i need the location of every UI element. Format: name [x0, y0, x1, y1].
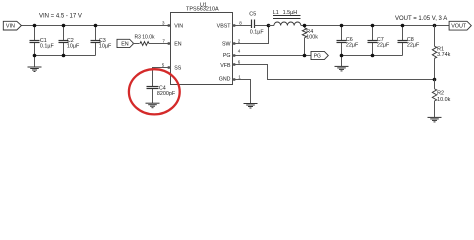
wire C5 to SW node: [255, 25, 269, 27]
capacitor C1: [30, 26, 55, 56]
node R4 top: [303, 24, 307, 28]
node feedback: [433, 78, 437, 82]
svg-text:22µF: 22µF: [407, 43, 420, 49]
wire input cap ground bus: [35, 55, 96, 57]
resistor R4: [302, 26, 318, 56]
svg-text:VBST: VBST: [217, 23, 232, 29]
svg-text:EN: EN: [174, 41, 182, 47]
svg-text:5: 5: [162, 62, 165, 67]
svg-text:PG: PG: [223, 53, 231, 59]
capacitor C6: [337, 26, 360, 56]
svg-text:SS: SS: [174, 65, 182, 71]
resistor R2: [432, 80, 450, 118]
wire VIN rail: [22, 25, 171, 27]
wire VFB feedback: [233, 65, 435, 80]
capacitor C2: [59, 26, 81, 56]
svg-text:VFB: VFB: [220, 63, 231, 69]
svg-text:VIN: VIN: [174, 23, 183, 29]
svg-text:6: 6: [238, 59, 241, 64]
svg-text:VOUT: VOUT: [451, 24, 467, 30]
svg-text:VIN = 4.5 - 17 V: VIN = 4.5 - 17 V: [39, 14, 82, 20]
ground input bus: [28, 56, 42, 72]
svg-text:2: 2: [238, 38, 241, 43]
capacitor C8: [398, 26, 421, 56]
annotation red circle: [129, 69, 180, 114]
resistor R1: [432, 26, 450, 80]
svg-text:0.1µF: 0.1µF: [250, 29, 265, 35]
net flag VOUT: [449, 21, 471, 30]
svg-text:10µF: 10µF: [67, 43, 80, 49]
svg-text:22µF: 22µF: [377, 43, 390, 49]
svg-text:C5: C5: [249, 11, 256, 17]
svg-text:10µF: 10µF: [99, 43, 112, 49]
wire output cap ground bus: [342, 55, 403, 57]
svg-text:PG: PG: [314, 54, 321, 60]
junction dots output rail: [340, 24, 437, 58]
pin connector circles left: [168, 25, 170, 69]
svg-text:GND: GND: [219, 76, 231, 82]
capacitor C7: [368, 26, 391, 56]
svg-text:1: 1: [238, 74, 241, 79]
wire output rail: [301, 25, 449, 27]
svg-text:100k: 100k: [306, 35, 318, 41]
wire SW pin: [233, 26, 269, 44]
node R4/PG: [303, 54, 307, 58]
net flag VIN: [3, 21, 21, 30]
svg-text:L1: L1: [273, 10, 279, 16]
capacitor C4: [147, 85, 176, 97]
svg-text:1.5µH: 1.5µH: [283, 10, 298, 16]
svg-text:SW: SW: [222, 41, 231, 47]
ground C4: [146, 89, 160, 108]
wire VBST pin: [233, 25, 252, 27]
capacitor C5: [249, 11, 264, 35]
svg-text:TPS563210A: TPS563210A: [186, 7, 219, 13]
svg-text:4: 4: [238, 49, 241, 54]
svg-text:8200pF: 8200pF: [157, 91, 176, 97]
svg-text:R2: R2: [437, 90, 444, 96]
ground R2: [428, 117, 442, 122]
svg-text:EN: EN: [121, 42, 129, 48]
net flag PG: [311, 51, 328, 59]
svg-text:8: 8: [239, 20, 242, 25]
ground IC GND: [244, 104, 258, 109]
ground output bus: [335, 56, 349, 71]
pin connector circles right: [233, 25, 235, 81]
svg-text:VIN: VIN: [6, 24, 15, 30]
net flag EN: [117, 39, 134, 47]
wire GND pin: [233, 80, 251, 104]
capacitor C3: [91, 26, 113, 56]
inductor L1: [269, 10, 301, 25]
wire SS pin: [153, 68, 171, 87]
svg-text:3.74k: 3.74k: [437, 52, 450, 58]
svg-text:VOUT = 1.05 V, 3 A: VOUT = 1.05 V, 3 A: [395, 16, 447, 22]
wire PG pin: [233, 55, 312, 57]
svg-text:10.0k: 10.0k: [437, 97, 450, 103]
svg-text:7: 7: [162, 38, 165, 43]
IC U1 box: [171, 13, 233, 85]
svg-text:R3 10.0k: R3 10.0k: [135, 34, 156, 40]
resistor R3: [133, 34, 171, 45]
node SW: [267, 24, 271, 28]
junction dots input rail: [33, 24, 98, 58]
svg-text:3: 3: [162, 20, 165, 25]
svg-text:22µF: 22µF: [346, 43, 359, 49]
svg-text:0.1µF: 0.1µF: [40, 43, 55, 49]
